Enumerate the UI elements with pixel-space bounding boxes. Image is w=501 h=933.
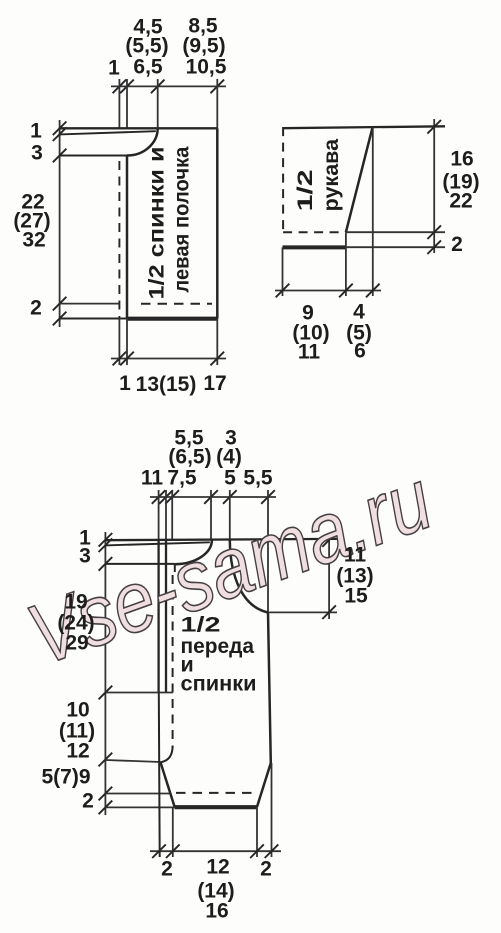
piece3 bottom ext x=271 bbox=[271, 763, 273, 857]
svg-text:2: 2 bbox=[82, 790, 94, 813]
sleeve cuff bottom thick bbox=[283, 245, 346, 249]
piece1 neck curve bbox=[127, 128, 158, 155]
svg-text:16: 16 bbox=[450, 148, 473, 171]
piece1 top dim tick 6,5 bbox=[151, 80, 165, 94]
piece1 left dim tick neck 3 bbox=[53, 149, 67, 163]
piece1 top dim tick 10,5 bbox=[211, 80, 225, 94]
piece3 top edge line + right ext bbox=[105, 539, 337, 540]
piece1 bottom ext x=119 bbox=[118, 319, 120, 366]
svg-text:5: 5 bbox=[224, 467, 236, 490]
svg-text:2: 2 bbox=[451, 233, 463, 256]
piece3 left dim tick bbox=[99, 787, 113, 801]
sleeve bottom dimension line bbox=[275, 290, 381, 292]
svg-text:5(7)9: 5(7)9 bbox=[41, 766, 90, 789]
piece3 top dim tick bbox=[152, 490, 166, 504]
svg-text:13(15): 13(15) bbox=[136, 373, 197, 396]
sleeve dashed left edge (fold) bbox=[282, 127, 284, 232]
sleeve right dim tick bbox=[427, 240, 441, 254]
piece1 ext line x=217 (right corner) bbox=[216, 79, 218, 128]
piece3 left dimension line bbox=[104, 532, 106, 815]
piece3 band inner solid line bbox=[165, 540, 167, 693]
piece3 ext right through curve bbox=[267, 490, 269, 613]
svg-text:1/2: 1/2 bbox=[181, 613, 221, 637]
piece3 left lower edge + bottom ext bbox=[158, 693, 161, 858]
svg-text:1: 1 bbox=[30, 120, 42, 143]
piece3 ext neck point bbox=[210, 490, 212, 540]
piece3 left dim tick bbox=[99, 533, 113, 547]
piece3 left hem slant bbox=[161, 762, 175, 807]
piece1 rib level ext line (2 cm) bbox=[60, 303, 120, 305]
piece3 top dim tick bbox=[165, 490, 179, 504]
svg-text:10,5: 10,5 bbox=[186, 56, 227, 79]
piece1 bottom dim tick bbox=[211, 352, 225, 366]
piece3 top dim tick bbox=[204, 490, 218, 504]
piece1 right edge bbox=[216, 128, 219, 318]
svg-text:19: 19 bbox=[64, 591, 87, 614]
svg-text:2: 2 bbox=[30, 297, 42, 320]
sleeve bottom dim tick bbox=[339, 284, 353, 298]
svg-text:32: 32 bbox=[22, 229, 45, 252]
svg-text:22: 22 bbox=[449, 190, 472, 213]
piece3 top dim tick bbox=[261, 490, 275, 504]
svg-text:4: 4 bbox=[353, 301, 365, 324]
svg-text:11: 11 bbox=[344, 544, 367, 567]
piece1 top dim tick 1-right bbox=[120, 80, 134, 94]
piece3 right edge bbox=[268, 613, 271, 764]
piece1 top edge / shoulder top line bbox=[60, 127, 218, 129]
piece3 bottom ext x=173 bbox=[172, 807, 174, 857]
piece1 left dim tick top bbox=[53, 122, 67, 136]
piece3 rib level ext line (2 cm) bbox=[105, 793, 170, 795]
piece1 left dim tick bottom bbox=[53, 312, 67, 326]
piece3 hem ext thin bbox=[105, 806, 174, 808]
piece3 right dim tick top bbox=[322, 533, 336, 547]
sleeve right dim tick bbox=[427, 120, 441, 134]
sleeve right dimension line bbox=[433, 119, 435, 253]
sleeve dashed bottom line bbox=[283, 231, 342, 233]
svg-text:16: 16 bbox=[205, 900, 228, 923]
svg-text:6,5: 6,5 bbox=[133, 56, 163, 79]
svg-text:5,5: 5,5 bbox=[243, 467, 273, 490]
svg-text:12: 12 bbox=[66, 740, 89, 763]
svg-text:3: 3 bbox=[31, 142, 43, 165]
sleeve bottom dim tick bbox=[366, 284, 380, 298]
piece1 ext line x=119 (band) bbox=[118, 79, 120, 128]
piece3 left dim tick bbox=[99, 686, 113, 700]
piece1 bottom dimension line bbox=[111, 358, 226, 360]
svg-text:1/2 спинки и: 1/2 спинки и bbox=[145, 147, 169, 300]
piece3 top dim tick bbox=[223, 490, 237, 504]
piece3 band outer solid line bbox=[157, 540, 159, 693]
piece3 bottom dim tick bbox=[250, 844, 264, 858]
piece1 bottom dim tick bbox=[113, 352, 127, 366]
piece1 left dim tick shoulder 1 bbox=[53, 127, 67, 141]
svg-text:2: 2 bbox=[161, 858, 173, 881]
piece1 bottom ext thin bbox=[60, 318, 127, 320]
svg-text:7,5: 7,5 bbox=[167, 467, 197, 490]
piece3 left dim tick bbox=[99, 801, 113, 815]
svg-text:1: 1 bbox=[119, 372, 131, 395]
svg-text:12: 12 bbox=[206, 856, 229, 879]
svg-text:10: 10 bbox=[66, 699, 89, 722]
piece3 bottom dim tick bbox=[265, 844, 279, 858]
piece3 bottom dimension line bbox=[150, 850, 281, 852]
piece3 shoulder slope line (1 cm) bbox=[105, 542, 209, 545]
piece3 left dim tick bbox=[99, 557, 113, 571]
svg-text:11: 11 bbox=[298, 341, 321, 364]
piece3 bottom dim tick bbox=[166, 844, 180, 858]
svg-text:6: 6 bbox=[354, 340, 366, 363]
piece1 top dim tick 1-left bbox=[113, 80, 127, 94]
piece1 bottom edge thick bbox=[127, 317, 217, 321]
svg-text:(4): (4) bbox=[216, 446, 242, 469]
piece3 left dim tick bbox=[99, 538, 113, 552]
piece1 top dimension line bbox=[111, 85, 226, 87]
piece3 slant-top ext line (5(7)9 level) bbox=[105, 760, 160, 762]
piece3 armhole depth ext line bbox=[268, 611, 337, 613]
piece1 front band dashed line bbox=[118, 161, 120, 319]
piece3 band end line (10-12 level) bbox=[105, 692, 173, 694]
svg-text:(6,5): (6,5) bbox=[168, 446, 211, 469]
piece3 hem bottom thick bbox=[175, 805, 257, 809]
svg-text:1: 1 bbox=[108, 57, 120, 80]
sleeve mid ext line (cuff top) bbox=[346, 231, 445, 233]
svg-text:29: 29 bbox=[65, 632, 88, 655]
svg-text:(5,5): (5,5) bbox=[125, 35, 168, 58]
sleeve slanted seam bbox=[346, 126, 373, 232]
svg-text:левая полочка: левая полочка bbox=[170, 146, 194, 293]
svg-text:15: 15 bbox=[344, 585, 368, 608]
piece1 ext line x=158 (neck point) bbox=[157, 79, 159, 128]
piece3 dashed line bottom hook bbox=[161, 746, 173, 762]
piece1 left dim tick rib top 2 bbox=[53, 297, 67, 311]
piece3 ext band outer bbox=[158, 490, 160, 540]
piece1 shoulder slope line (1 cm) bbox=[60, 131, 156, 134]
piece3 hem dashed rib line bbox=[176, 792, 255, 794]
sleeve bottom dim tick bbox=[276, 284, 290, 298]
piece3 top dimension line bbox=[150, 496, 276, 498]
piece3 right dim tick bottom bbox=[322, 605, 336, 619]
sleeve cuff bottom ext bbox=[346, 246, 445, 248]
piece1 bottom dim tick bbox=[120, 352, 134, 366]
svg-text:(9,5): (9,5) bbox=[182, 35, 225, 58]
piece1 neck depth line (3 cm) bbox=[60, 155, 128, 157]
piece1 ext line x=127 (edge) bbox=[126, 79, 128, 128]
piece3 top dim tick bbox=[159, 490, 173, 504]
svg-text:рукава: рукава bbox=[319, 138, 343, 212]
piece3 left neck curve bbox=[175, 540, 212, 564]
svg-text:11: 11 bbox=[141, 467, 164, 490]
svg-text:17: 17 bbox=[203, 372, 226, 395]
svg-text:спинки: спинки bbox=[181, 672, 257, 696]
piece1 inner dashed rib line bbox=[141, 303, 212, 305]
piece3 bottom ext x=257 bbox=[256, 807, 258, 857]
piece3 neck depth line (3 cm) bbox=[105, 563, 174, 565]
piece3 ext band inner bbox=[165, 490, 167, 540]
piece3 left dim tick bbox=[99, 753, 113, 767]
piece3 right armhole curve bbox=[230, 540, 268, 613]
piece1 left edge (solid) bbox=[126, 156, 129, 319]
piece3 right dimension line bbox=[328, 533, 330, 619]
sleeve mid ext to bottom dim bbox=[345, 232, 347, 296]
svg-text:1/2: 1/2 bbox=[293, 169, 317, 211]
piece3 right hem slant bbox=[257, 763, 271, 807]
svg-text:3: 3 bbox=[79, 545, 91, 568]
sleeve right dim tick bbox=[427, 225, 441, 239]
piece1 bottom ext x=217 bbox=[216, 319, 218, 366]
svg-text:2: 2 bbox=[260, 858, 272, 881]
piece3 ext band fold bbox=[171, 490, 173, 540]
piece3 bottom dim tick bbox=[152, 844, 166, 858]
sleeve left ext to bottom dim bbox=[282, 247, 284, 296]
piece3 ext armhole start bbox=[229, 490, 231, 540]
piece1 bottom ext x=127 bbox=[126, 319, 128, 366]
piece3 front fold dashed line bbox=[172, 575, 174, 748]
sleeve top edge + ext bbox=[283, 126, 446, 128]
piece1 left dimension line bbox=[59, 120, 61, 327]
piece3 front edge solid stub bbox=[174, 564, 176, 572]
sleeve right ext to bottom dim bbox=[372, 127, 374, 296]
